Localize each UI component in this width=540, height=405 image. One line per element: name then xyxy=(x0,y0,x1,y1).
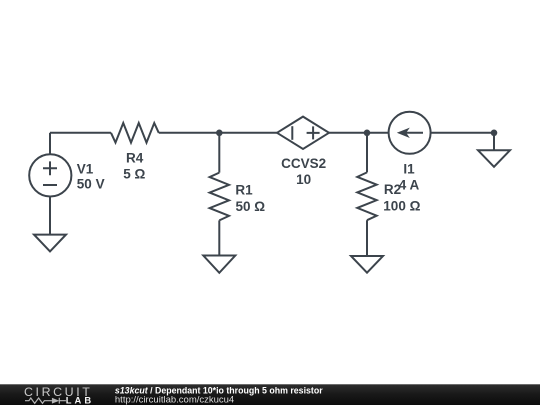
wire: R4 right to CCVS2 left xyxy=(159,132,277,134)
I1 arrow shaft xyxy=(400,132,423,134)
resistor R4 xyxy=(111,123,159,143)
svg-text:R2: R2 xyxy=(384,182,401,197)
resistor R1 xyxy=(210,173,229,221)
svg-text:5 Ω: 5 Ω xyxy=(123,166,145,181)
logo resistor-diode glyph xyxy=(25,398,66,404)
ground (R1) xyxy=(203,256,235,273)
node A junction dot xyxy=(216,130,223,137)
ground (R2) xyxy=(351,256,383,273)
dependent source CCVS2 (diamond) xyxy=(277,117,329,149)
svg-text:50 V: 50 V xyxy=(77,176,105,191)
footer bar xyxy=(0,384,540,405)
svg-text:LAB: LAB xyxy=(66,395,95,405)
svg-text:R1: R1 xyxy=(235,182,253,197)
wire: node to R1 top xyxy=(218,133,220,173)
ground (right node) xyxy=(478,150,510,167)
svg-text:I1: I1 xyxy=(403,161,415,176)
svg-text:V1: V1 xyxy=(77,162,94,177)
V1 plus sign xyxy=(43,161,57,175)
wire: V1 bottom lead xyxy=(49,197,51,235)
wire: I1 right to right node xyxy=(431,132,494,134)
wire: R2 bottom lead xyxy=(366,220,368,256)
resistor R2 xyxy=(357,172,376,220)
wire: V1 top to R4 left xyxy=(50,132,111,134)
wire: V1 top lead xyxy=(49,133,51,155)
CCVS2 plus sign xyxy=(307,126,320,139)
wire: R1 bottom lead xyxy=(218,220,220,255)
wire: node to R2 top xyxy=(366,133,368,173)
svg-text:CCVS2: CCVS2 xyxy=(281,156,326,171)
svg-text:4 A: 4 A xyxy=(399,178,420,193)
svg-text:R4: R4 xyxy=(126,151,144,166)
V1 minus sign xyxy=(43,184,57,186)
wire: CCVS2 right to I1 left xyxy=(329,132,389,134)
current source I1 xyxy=(389,112,431,154)
svg-text:100 Ω: 100 Ω xyxy=(383,198,420,213)
node C junction dot xyxy=(491,130,498,137)
ground (V1) xyxy=(34,235,66,252)
voltage source V1 xyxy=(29,154,71,196)
svg-text:50 Ω: 50 Ω xyxy=(236,199,266,214)
svg-text:10: 10 xyxy=(296,172,311,187)
svg-text:http://circuitlab.com/czkucu4: http://circuitlab.com/czkucu4 xyxy=(115,394,234,405)
CCVS2 minus bar xyxy=(291,126,293,140)
node B junction dot xyxy=(364,130,371,137)
wire: right node down lead xyxy=(493,133,495,151)
logo diode triangle xyxy=(52,398,59,404)
I1 arrowhead xyxy=(397,128,410,138)
